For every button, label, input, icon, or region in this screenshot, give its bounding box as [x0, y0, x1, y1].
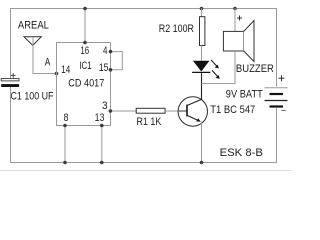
buzzer plus sign [237, 16, 242, 21]
wire IC pin 3 to R1 [111, 110, 137, 112]
wire IC pin 8 to bottom rail [64, 126, 66, 163]
antenna aerial symbol [24, 37, 41, 74]
junction pin 16 at IC edge [83, 41, 87, 45]
svg-text:16: 16 [80, 45, 89, 57]
svg-text:A: A [45, 57, 51, 69]
wire right rail lower (battery to bottom) [276, 108, 278, 163]
junction top rail buzzer [233, 7, 237, 11]
svg-text:9V BATT: 9V BATT [226, 89, 263, 101]
junction pin 3 [109, 109, 113, 113]
junction emitter bottom rail [200, 161, 204, 165]
wire LED cathode to collector [201, 73, 203, 99]
svg-text:ESK 8-B: ESK 8-B [220, 147, 263, 159]
wire top rail to buzzer [234, 8, 236, 31]
svg-text:IC1: IC1 [79, 60, 91, 72]
wire buzzer bottom to LED node [234, 51, 236, 84]
svg-text:AREAL: AREAL [18, 19, 49, 31]
svg-text:R2 100R: R2 100R [159, 23, 194, 35]
wire base lead inside transistor [179, 110, 187, 112]
junction top rail pin16 [83, 7, 87, 11]
svg-text:14: 14 [61, 64, 70, 76]
capacitor C1 [1, 79, 19, 87]
junction pin 14 [55, 72, 59, 76]
svg-text:C1 100 UF: C1 100 UF [11, 91, 54, 103]
wire LED node to buzzer [202, 83, 236, 85]
junction pin 4 [109, 50, 113, 54]
svg-text:3: 3 [102, 100, 108, 112]
junction pin 8 bottom [63, 161, 67, 165]
wire bottom rail [10, 162, 277, 164]
wire R1 to transistor base [165, 110, 179, 112]
junction pin 13 top [100, 124, 104, 128]
wire bracket pin 4 to pin 15 [111, 52, 123, 70]
battery 9V [265, 88, 288, 107]
wire R2 to LED [201, 46, 203, 61]
svg-text:8: 8 [64, 112, 69, 124]
wire left rail lower (C1 to bottom) [10, 87, 12, 163]
wire IC pin 13 to bottom rail [101, 126, 103, 163]
wire top rail to R2 [201, 8, 203, 17]
junction top rail R2 [200, 7, 204, 11]
LED D1 [192, 61, 210, 73]
wire emitter to bottom rail [201, 122, 203, 163]
junction pin 15 [109, 68, 113, 72]
junction pin 8 top [63, 124, 67, 128]
op IC1 CD4017 box [57, 43, 111, 126]
battery minus sign [282, 110, 286, 112]
C1 plus sign [11, 73, 16, 78]
wire IC pin 16 to top rail [84, 8, 86, 43]
svg-text:T1 BC 547: T1 BC 547 [210, 104, 255, 116]
svg-text:15: 15 [99, 62, 109, 74]
svg-text:BUZZER: BUZZER [236, 63, 274, 75]
svg-text:4: 4 [103, 45, 107, 57]
page rule line [0, 170, 291, 172]
transistor T1 BC547 [178, 97, 207, 126]
wire left rail upper (to C1) [10, 8, 12, 79]
resistor R2 [200, 17, 205, 46]
junction pin 13 bottom [100, 161, 104, 165]
svg-text:CD 4017: CD 4017 [68, 78, 104, 90]
wire top supply rail [10, 8, 277, 10]
LED emission arrows [211, 60, 220, 79]
svg-text:R1 1K: R1 1K [137, 116, 162, 128]
resistor R1 [136, 108, 165, 113]
wire right rail upper (to battery) [276, 8, 278, 87]
buzzer speaker symbol [223, 21, 254, 62]
wire antenna to IC pin 14 [33, 73, 58, 75]
battery plus sign [279, 75, 285, 81]
svg-text:13: 13 [95, 112, 105, 124]
